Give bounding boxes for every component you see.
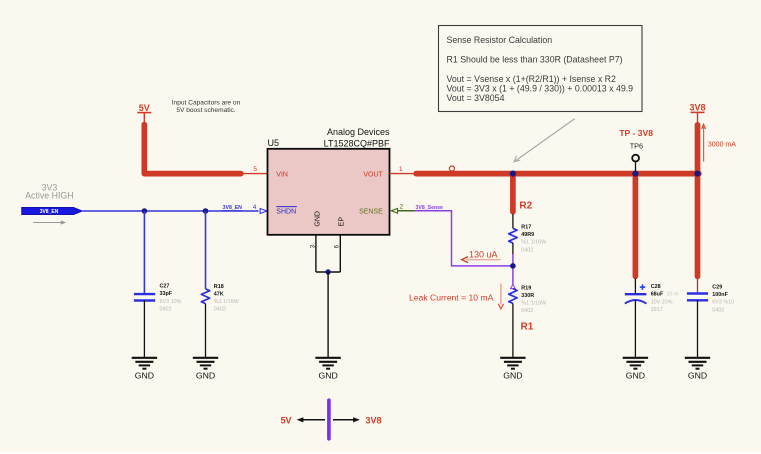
wire VOUT pin 1 <box>390 173 414 175</box>
svg-text:SHDN: SHDN <box>276 208 296 215</box>
junction below IC <box>325 269 330 274</box>
pin arrow SHDN input <box>260 209 267 214</box>
svg-text:5V: 5V <box>280 415 291 425</box>
svg-text:Input Capacitors are on: Input Capacitors are on <box>172 100 241 107</box>
svg-text:Leak Current = 10 mA: Leak Current = 10 mA <box>409 293 494 303</box>
wire SENSE pin (green) <box>397 210 414 212</box>
annotation arrow from note box to bus <box>514 119 575 162</box>
note: 3V3 Active HIGH <box>25 182 73 200</box>
svg-text:TP - 3V8: TP - 3V8 <box>619 128 653 138</box>
ground C27 <box>132 358 157 381</box>
svg-text:EP: EP <box>339 217 346 227</box>
wire to R18 <box>205 211 207 289</box>
svg-text:C29: C29 <box>712 285 722 291</box>
resistor R17 <box>509 214 547 254</box>
svg-text:SENSE: SENSE <box>359 208 383 215</box>
svg-text:Analog Devices: Analog Devices <box>327 127 390 137</box>
svg-text:5: 5 <box>253 166 257 173</box>
pin 6 wire <box>339 235 341 272</box>
junction bus / 3V8 <box>694 171 700 177</box>
svg-text:R17: R17 <box>521 224 531 230</box>
svg-text:R1: R1 <box>521 322 534 333</box>
svg-text:Vout = 3V3 x (1 + (49.9 / 330): Vout = 3V3 x (1 + (49.9 / 330)) + 0.0001… <box>447 84 634 94</box>
svg-text:VIN: VIN <box>276 172 288 179</box>
svg-text:5V boost schematic.: 5V boost schematic. <box>176 107 236 114</box>
svg-text:%1 1/16W: %1 1/16W <box>214 299 240 305</box>
pin arrow SENSE output <box>391 208 397 213</box>
svg-text:GND: GND <box>503 371 522 381</box>
svg-text:C28: C28 <box>651 284 661 290</box>
junction on 3V8_EN wire at C27 <box>142 208 148 214</box>
svg-text:2917: 2917 <box>651 307 663 313</box>
wire C28 branch (thick) <box>633 176 639 276</box>
probe marker on bus <box>449 166 454 171</box>
svg-text:R19: R19 <box>521 285 531 291</box>
wire to VIN pin <box>244 173 268 175</box>
note: sense resistor calculation box <box>439 26 643 112</box>
svg-text:U5: U5 <box>268 138 280 148</box>
svg-text:GND: GND <box>688 371 707 381</box>
svg-text:47K: 47K <box>214 291 224 297</box>
svg-text:2: 2 <box>400 204 404 211</box>
svg-text:3V8_EN: 3V8_EN <box>223 205 243 211</box>
svg-text:0402: 0402 <box>521 308 533 314</box>
resistor R19 <box>509 284 547 357</box>
svg-text:130 uA: 130 uA <box>469 249 498 259</box>
svg-text:Sense Resistor Calculation: Sense Resistor Calculation <box>447 35 553 45</box>
annotation Leak Current <box>409 284 504 309</box>
capacitor C28 (polarized) <box>625 279 679 358</box>
svg-text:3V8: 3V8 <box>366 415 382 425</box>
svg-text:Active HIGH: Active HIGH <box>25 191 73 201</box>
power symbol 5V <box>137 103 151 122</box>
junction bus / R2 <box>510 171 516 177</box>
capacitor C29 <box>687 279 734 358</box>
svg-text:0402: 0402 <box>521 247 533 253</box>
ground R19 <box>500 358 525 381</box>
svg-text:6V3 %10: 6V3 %10 <box>712 300 734 306</box>
test point TP6 <box>619 128 653 171</box>
junction on 3V8_EN wire at R18 <box>203 208 209 214</box>
wire 5V feed (thick) <box>144 125 241 174</box>
svg-text:GND: GND <box>318 371 337 381</box>
svg-text:330R: 330R <box>521 293 534 299</box>
svg-text:R1 Should be less than 330R (D: R1 Should be less than 330R (Datasheet P… <box>447 54 623 64</box>
arrow port direction <box>33 220 66 224</box>
svg-text:3000 mA: 3000 mA <box>708 141 736 148</box>
svg-text:3V8: 3V8 <box>689 103 705 113</box>
svg-text:LT1528CQ#PBF: LT1528CQ#PBF <box>324 138 390 148</box>
svg-text:33pF: 33pF <box>160 291 173 297</box>
svg-text:TP6: TP6 <box>630 141 643 150</box>
svg-text:C27: C27 <box>160 284 170 290</box>
svg-text:4: 4 <box>253 204 257 211</box>
wire purple below junction <box>512 266 514 285</box>
ground U5 <box>315 358 340 381</box>
wire 3V8_EN <box>83 210 259 212</box>
svg-text:R2: R2 <box>519 200 532 211</box>
svg-text:25 m: 25 m <box>667 292 679 298</box>
resistor R18 <box>201 284 239 358</box>
svg-text:0402: 0402 <box>712 307 724 313</box>
wire sense net (purple) <box>403 211 513 266</box>
svg-text:GND: GND <box>196 371 215 381</box>
svg-text:100nF: 100nF <box>712 292 728 298</box>
svg-text:5V: 5V <box>139 103 150 113</box>
bus divider 5V / 3V8 <box>280 400 381 439</box>
ground R18 <box>193 358 218 381</box>
svg-text:3: 3 <box>309 244 316 248</box>
svg-text:%1 1/16W: %1 1/16W <box>521 240 547 246</box>
power symbol 3V8 <box>689 103 705 122</box>
wire joining pins 3 and 6 <box>316 271 340 273</box>
pin name SHDN with overline <box>276 207 297 216</box>
wire 3V8 vertical (thick) <box>695 125 701 277</box>
junction bus / TP C28 <box>632 171 638 177</box>
svg-text:Vout = Vsense x (1+(R2/R1)) +: Vout = Vsense x (1+(R2/R1)) + Isense x R… <box>447 74 617 84</box>
wire 3V8 bus (thick) <box>416 171 699 177</box>
wire to C27 <box>143 211 145 293</box>
pin 3 wire <box>315 235 317 272</box>
wire purple above junction <box>512 254 514 266</box>
port 3V8_EN <box>22 207 83 215</box>
capacitor C27 <box>134 284 182 358</box>
svg-text:0402: 0402 <box>160 306 172 312</box>
svg-text:0402: 0402 <box>214 307 226 313</box>
svg-text:3V8_EN: 3V8_EN <box>40 209 59 215</box>
wire R2 (thick) <box>510 176 516 212</box>
svg-text:GND: GND <box>135 371 154 381</box>
svg-text:68uF: 68uF <box>651 292 664 298</box>
svg-text:1: 1 <box>399 166 403 173</box>
svg-text:10V 20%: 10V 20% <box>651 299 673 305</box>
note: input capacitors <box>172 100 241 115</box>
annotation 3000 mA <box>702 124 737 161</box>
svg-text:3V8_Sense: 3V8_Sense <box>416 205 444 211</box>
svg-text:6: 6 <box>334 244 341 248</box>
junction sense node <box>510 263 516 269</box>
svg-text:49R9: 49R9 <box>521 232 534 238</box>
svg-text:Vout = 3V8054: Vout = 3V8054 <box>447 93 505 103</box>
svg-text:R18: R18 <box>214 284 224 290</box>
svg-text:GND: GND <box>314 211 321 227</box>
svg-text:6V3 10%: 6V3 10% <box>160 299 182 305</box>
svg-text:GND: GND <box>626 371 645 381</box>
annotation 130 uA <box>462 249 501 262</box>
ground C29 <box>685 358 710 381</box>
svg-text:%1 1/16W: %1 1/16W <box>521 301 547 307</box>
regulator U5 LT1528CQ#PBF body <box>268 149 390 235</box>
svg-text:VOUT: VOUT <box>363 172 383 179</box>
wire IC ground <box>327 272 329 358</box>
ground C28 <box>623 358 648 381</box>
